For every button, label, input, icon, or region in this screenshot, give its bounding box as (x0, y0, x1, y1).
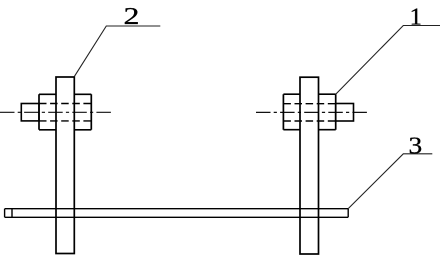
svg-text:2: 2 (124, 3, 140, 30)
bar end-cap divider (11, 209, 13, 218)
leader line 3 (348, 154, 432, 209)
hidden bolt line top left (dashed) (39, 103, 91, 105)
leader line 1 (336, 26, 440, 95)
hidden bolt line top right (dashed) (283, 103, 335, 105)
clamp body left (rect around left post) (39, 94, 91, 130)
post 2 (left vertical column) (56, 77, 74, 254)
bolt head right (small rect on outer right side) (336, 104, 354, 122)
hidden bolt line bottom right (dashed) (283, 120, 335, 122)
centerline right axis (256, 111, 369, 113)
centerline left axis (0, 111, 111, 113)
svg-text:3: 3 (409, 132, 423, 159)
bolt head left (small rect on outer left side) (21, 104, 39, 121)
svg-text:1: 1 (410, 4, 422, 31)
hidden bolt line bottom left (dashed) (39, 120, 91, 122)
leader line 2 (74, 26, 160, 77)
post 1 (right vertical column) (300, 77, 319, 254)
bottom bar 3 (long horizontal member) (5, 209, 349, 218)
clamp body right (rect around right post) (283, 94, 335, 130)
